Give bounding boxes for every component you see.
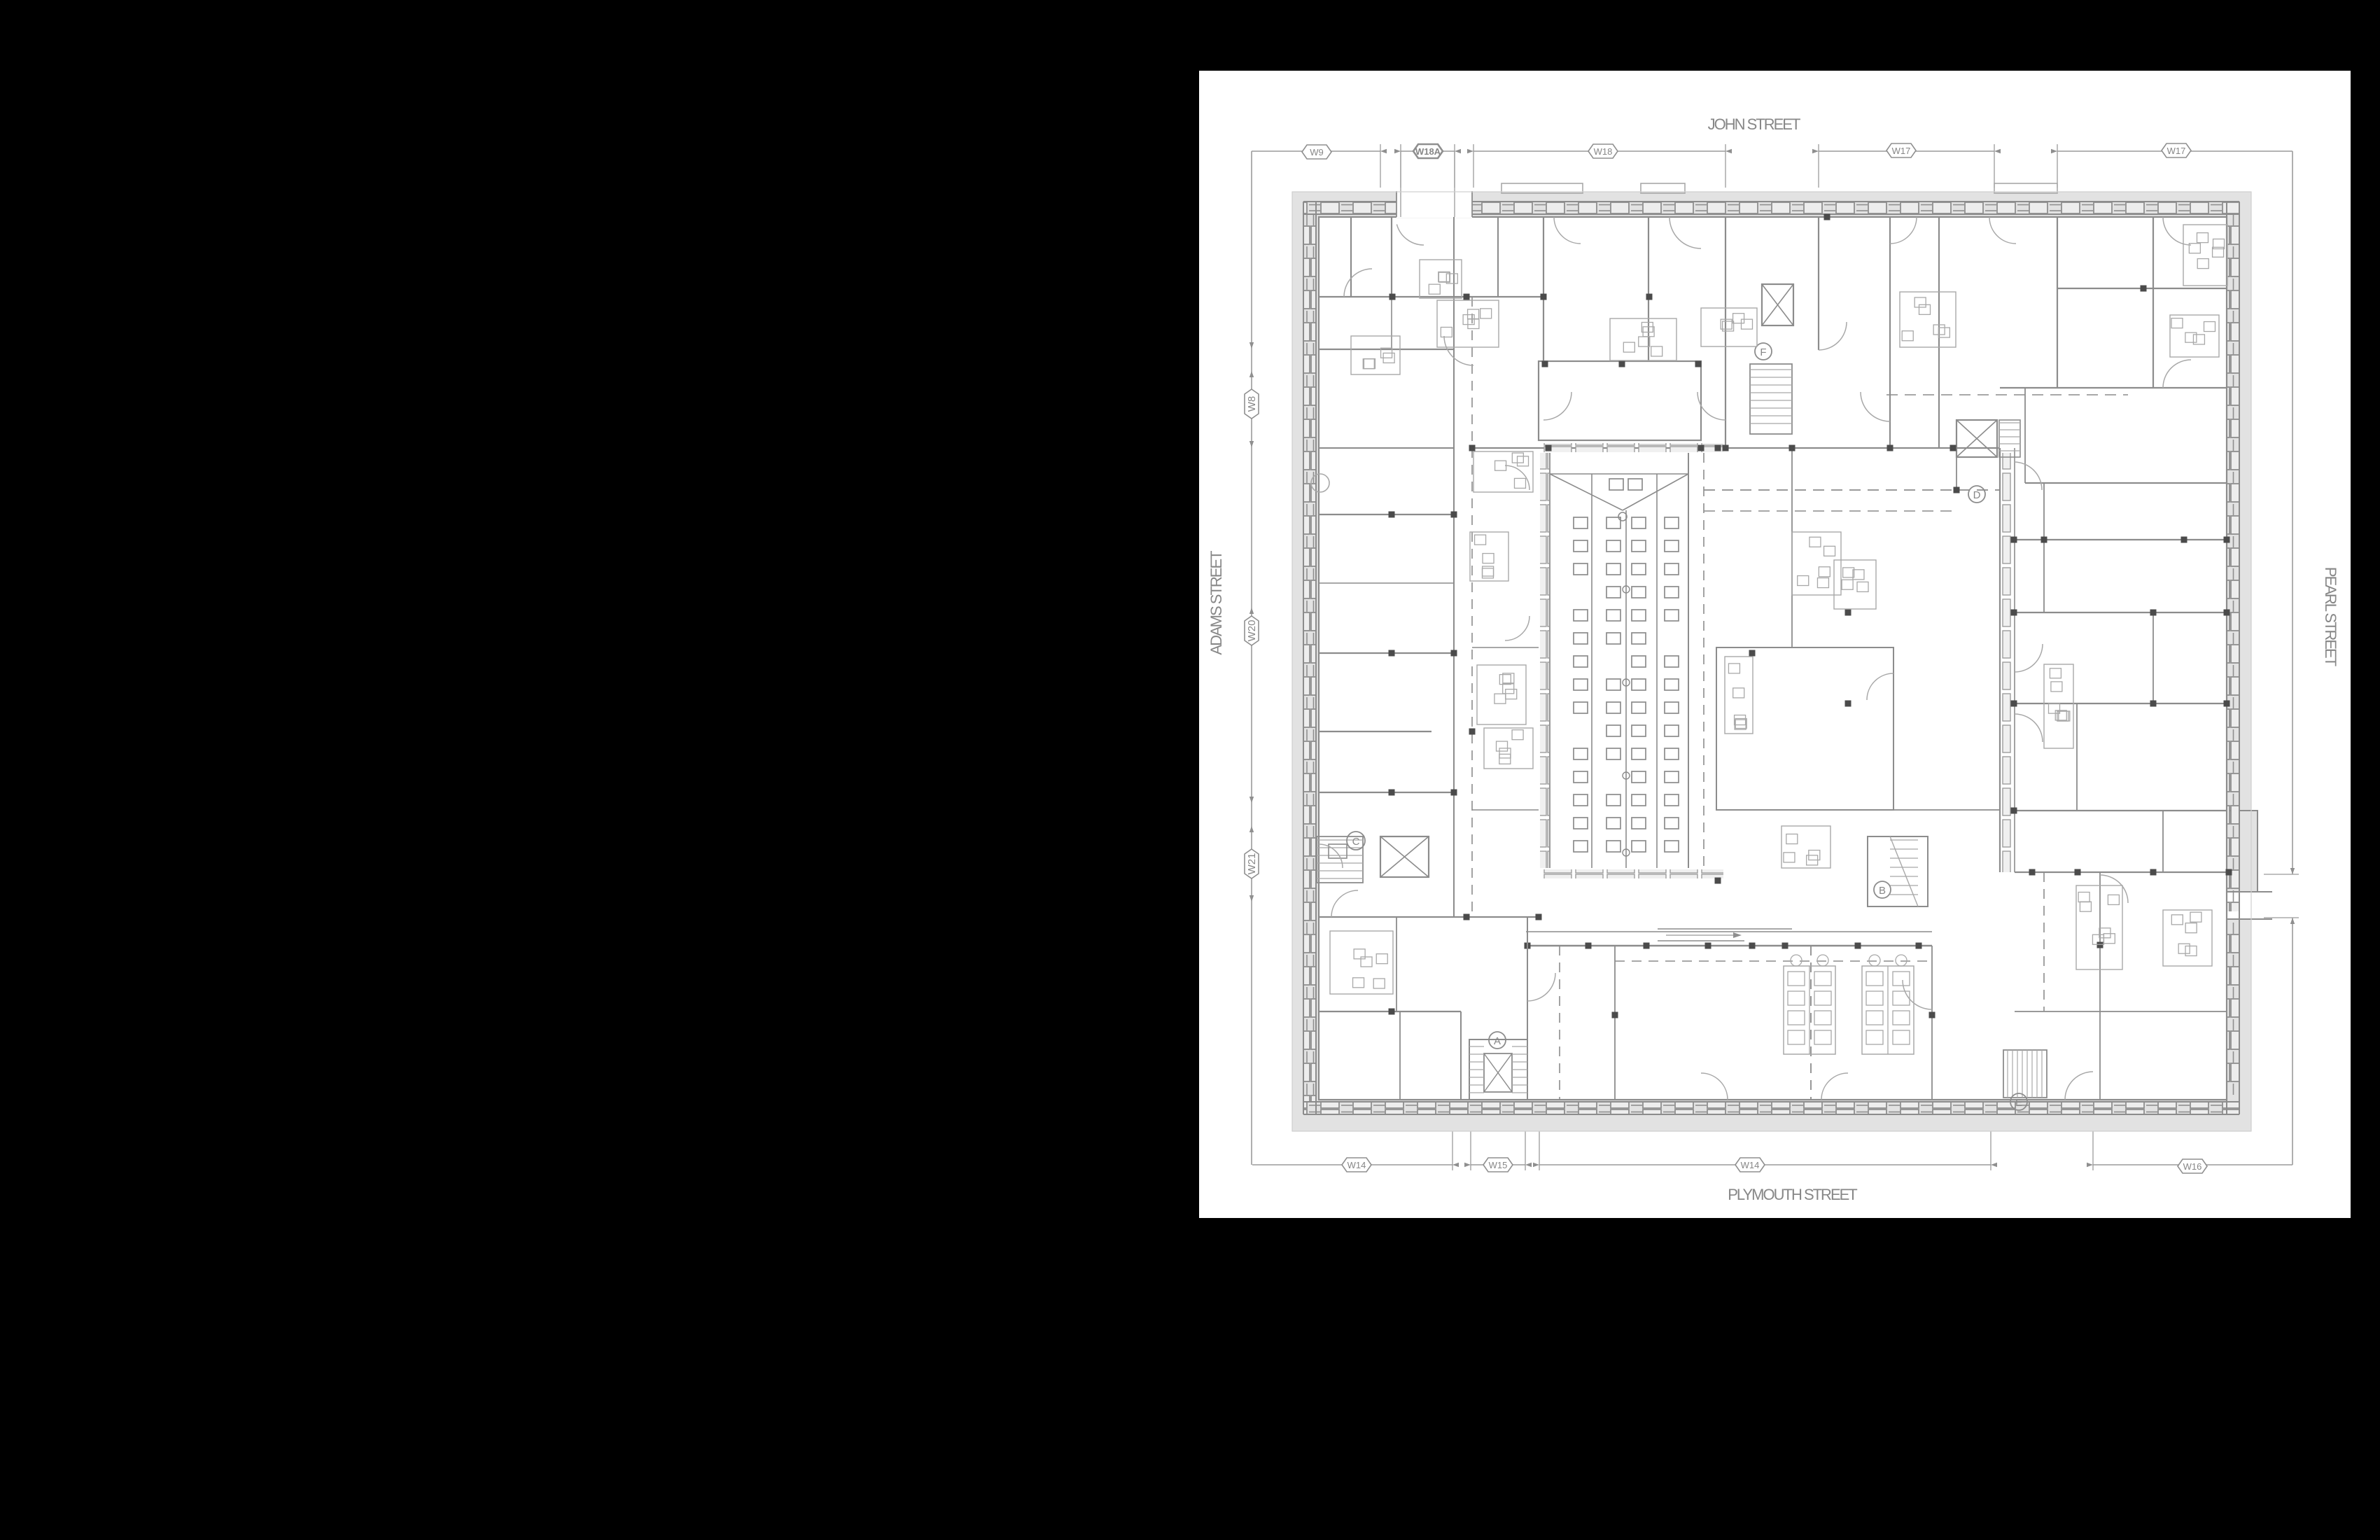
stair B shaft — [1868, 836, 1928, 906]
elevator F (crossed shaft) — [1762, 284, 1793, 325]
hall chevron — [1550, 474, 1623, 510]
svg-text:F: F — [1760, 346, 1766, 358]
window tag W9 — [1302, 145, 1331, 159]
masonry east wall — [2227, 214, 2239, 911]
west wing partitions — [1319, 296, 1543, 297]
stair A + elevator — [1469, 1039, 1527, 1100]
column circle on west wall — [1311, 474, 1329, 492]
stair id E — [2010, 1093, 2027, 1110]
dimension chain frame — [1252, 150, 1380, 152]
fixture clusters — [1420, 260, 1462, 298]
svg-text:W17: W17 — [2167, 146, 2186, 156]
svg-text:W18A: W18A — [1415, 146, 1441, 157]
stair F — [1750, 364, 1792, 434]
window tag W16 — [2178, 1159, 2207, 1173]
kitchen units — [1784, 966, 1835, 1054]
W18A storefront opening — [1396, 191, 1472, 218]
entry ramp arrow — [1658, 928, 1792, 930]
east corridor wall — [1999, 448, 2001, 872]
svg-text:ADAMS STREET: ADAMS STREET — [1207, 551, 1225, 655]
svg-text:W8: W8 — [1246, 396, 1258, 412]
corridor wall with columns — [1319, 916, 1539, 918]
elevator D (crossed shaft) — [1956, 420, 1997, 457]
svg-text:W14: W14 — [1741, 1160, 1760, 1170]
svg-text:A: A — [1494, 1035, 1501, 1047]
svg-text:W15: W15 — [1489, 1160, 1508, 1170]
stair id B — [1874, 881, 1891, 898]
north stoop — [1501, 183, 1583, 193]
masonry west wall — [1303, 214, 1316, 1102]
stair id C — [1347, 832, 1365, 850]
inner wall face — [1319, 217, 2227, 1100]
window tag W18 — [1588, 144, 1618, 158]
white drawing sheet — [1199, 71, 2351, 1218]
window tag W15 — [1483, 1158, 1513, 1172]
svg-text:W21: W21 — [1246, 853, 1258, 875]
north stoop — [1994, 183, 2057, 193]
room east of hall — [1716, 647, 1893, 810]
svg-text:PLYMOUTH STREET: PLYMOUTH STREET — [1728, 1186, 1857, 1203]
svg-text:JOHN STREET: JOHN STREET — [1708, 115, 1800, 133]
south wing partitions — [1319, 1011, 1461, 1012]
door swings — [1344, 269, 1372, 297]
window tag W21 — [1245, 849, 1259, 878]
svg-text:W18: W18 — [1594, 146, 1613, 157]
room above hall — [1539, 361, 1701, 440]
svg-text:W9: W9 — [1310, 147, 1324, 157]
entry bump-out on Pearl Street — [2227, 811, 2257, 892]
additional partitions — [1497, 217, 1499, 297]
band outer edge — [1292, 192, 2251, 1131]
stair id D — [1968, 486, 1985, 503]
masonry north wall — [1303, 202, 2239, 214]
svg-text:W14: W14 — [1347, 1160, 1366, 1170]
svg-text:W16: W16 — [2183, 1161, 2202, 1172]
stair C — [1317, 836, 1363, 883]
window tag W17 — [2162, 143, 2191, 157]
wall junction dots — [1389, 294, 1396, 300]
window tag W8 — [1245, 389, 1259, 419]
masonry south wall — [1303, 1102, 2239, 1114]
north corridor wall — [1473, 447, 1998, 449]
hall column grid — [1609, 479, 1623, 490]
stair D — [1999, 420, 2020, 457]
north stoop — [1641, 183, 1685, 193]
svg-text:PEARL STREET: PEARL STREET — [2322, 567, 2339, 666]
svg-text:W20: W20 — [1246, 620, 1258, 642]
window tag W17 — [1886, 143, 1916, 157]
window tag W14 — [1342, 1158, 1371, 1172]
stair E — [2003, 1050, 2047, 1098]
south corridor wall — [1526, 945, 1932, 946]
hall east wall — [1688, 453, 1689, 868]
chase wall — [1453, 217, 1455, 917]
window tag W14 — [1735, 1158, 1765, 1172]
stair id A — [1489, 1032, 1506, 1049]
svg-text:C: C — [1352, 836, 1360, 848]
central double-height hall — [1543, 443, 1723, 452]
elevator C (crossed shaft) — [1380, 836, 1429, 877]
stair id F — [1755, 343, 1772, 360]
window tag W20 — [1245, 616, 1259, 645]
window tag W18A — [1413, 144, 1443, 158]
svg-text:E: E — [2015, 1097, 2022, 1109]
svg-text:B: B — [1879, 885, 1886, 897]
svg-text:D: D — [1973, 489, 1981, 501]
exterior wall band — [1292, 192, 2251, 1131]
svg-text:W17: W17 — [1892, 146, 1911, 156]
